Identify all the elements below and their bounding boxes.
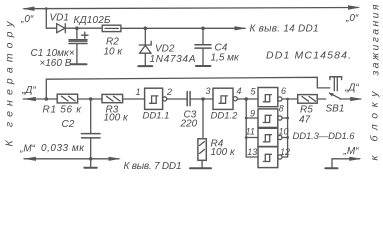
- svg-text:8: 8: [279, 104, 284, 114]
- wire input bus of DD1.3-DD1.6: [245, 99, 247, 157]
- wire gate4 out: [282, 156, 288, 158]
- svg-text:0,033 мк: 0,033 мк: [41, 143, 85, 154]
- wire right M terminal: [332, 158, 360, 160]
- svg-text:„Д“: „Д“: [344, 83, 359, 94]
- svg-text:зажигания: зажигания: [370, 4, 382, 76]
- wire gate1 out: [282, 98, 288, 100]
- svg-text:C2: C2: [62, 119, 75, 130]
- svg-text:К выв. 14 DD1: К выв. 14 DD1: [250, 24, 319, 35]
- svg-text:DD1.1: DD1.1: [143, 111, 170, 122]
- inverter DD1.3: [258, 88, 282, 107]
- node junction riser / Д rail: [45, 97, 49, 101]
- node junction diode wire / C1: [75, 26, 79, 30]
- ground under C2 junction: [90, 159, 92, 167]
- resistor R5: [298, 95, 318, 126]
- wire DD1.1 to C3: [167, 98, 187, 100]
- inverter DD1.1 (Schmitt trigger): [143, 88, 170, 121]
- svg-text:12: 12: [280, 147, 290, 157]
- capacitor C1 (electrolytic): [31, 28, 89, 69]
- wire to C4: [145, 27, 203, 29]
- node left "Д" arrow: [23, 97, 36, 101]
- svg-text:5: 5: [251, 87, 257, 97]
- capacitor C4: [195, 28, 240, 65]
- node junction C3 / R4 / DD1.2: [201, 97, 205, 101]
- svg-text:DD1.2: DD1.2: [211, 111, 239, 122]
- node top-left arrow terminal: [22, 7, 35, 11]
- wire to right Д arrow: [340, 98, 361, 100]
- svg-text:9: 9: [250, 109, 255, 119]
- wire gate3 out: [282, 137, 288, 139]
- inverter DD1.2 (Schmitt trigger): [211, 88, 239, 121]
- resistor R2: [102, 25, 145, 57]
- svg-text:КД102Б: КД102Б: [74, 15, 111, 26]
- node left "M" arrow: [23, 157, 36, 161]
- wire to pin 14 arrow: [203, 27, 245, 29]
- svg-text:VD2: VD2: [155, 44, 175, 55]
- node junction C2: [89, 97, 93, 101]
- zener diode VD2: [139, 28, 196, 65]
- ground under C1: [71, 63, 87, 65]
- node junction wire / C4: [201, 27, 205, 31]
- wire R3 to DD1.1: [123, 98, 145, 100]
- node top-right arrow terminal: [348, 5, 361, 9]
- wire riser to long bypass wire: [45, 79, 47, 99]
- svg-text:6: 6: [281, 86, 286, 96]
- svg-text:47: 47: [299, 115, 311, 126]
- svg-text:3: 3: [206, 86, 211, 96]
- wire R1 to R3: [78, 98, 102, 100]
- node arrow "К выв. 14 DD1": [235, 26, 248, 30]
- svg-text:„Д“: „Д“: [21, 85, 36, 96]
- svg-text:„0“: „0“: [345, 13, 359, 24]
- svg-text:100 к: 100 к: [211, 147, 236, 158]
- wire stub input gate2: [246, 117, 258, 119]
- resistor R4: [198, 99, 236, 167]
- svg-text:100 к: 100 к: [104, 113, 129, 124]
- wire R5 to switch contact: [317, 98, 326, 100]
- switch SB1: [326, 77, 345, 115]
- svg-text:SB1: SB1: [326, 104, 345, 115]
- wire long bypass to SB1: [46, 77, 330, 88]
- svg-text:R1 56 к: R1 56 к: [43, 105, 83, 116]
- svg-text:2: 2: [166, 87, 172, 97]
- svg-text:DD1.3—DD1.6: DD1.3—DD1.6: [293, 131, 356, 142]
- svg-text:VD1: VD1: [50, 13, 69, 24]
- svg-text:10 к: 10 к: [104, 47, 124, 58]
- ground right M: [331, 159, 333, 168]
- svg-text:1N4734A: 1N4734A: [150, 54, 196, 65]
- node junction input bus: [244, 97, 248, 101]
- wire stub input gate4: [246, 156, 258, 158]
- wire DD1.2 out to gate bank: [237, 98, 258, 100]
- wire stub input gate3: [246, 137, 258, 139]
- svg-text:1,5 мк: 1,5 мк: [211, 53, 241, 64]
- svg-text:13: 13: [247, 147, 257, 157]
- ground under R4: [190, 167, 211, 169]
- svg-text:DD1 МС14584.: DD1 МС14584.: [266, 50, 351, 62]
- node arrow "К выв. 7 DD1": [109, 157, 122, 161]
- wire bus to R5: [288, 98, 298, 100]
- wire top rail "0": [24, 8, 358, 9]
- svg-text:×160 В: ×160 В: [39, 58, 71, 69]
- diode VD1: [50, 13, 111, 33]
- resistor R1: [43, 94, 83, 115]
- wire gate2 out: [282, 117, 288, 119]
- node junction R2 wire / VD2: [144, 27, 148, 31]
- inverter DD1.6: [258, 147, 282, 168]
- inverter DD1.5: [258, 128, 282, 146]
- svg-text:4: 4: [237, 86, 242, 96]
- ground under C4: [196, 65, 211, 67]
- capacitor C3: [180, 92, 214, 130]
- wire riser from top rail to VD1 branch: [46, 9, 56, 29]
- wire left Д rail: [23, 98, 57, 100]
- capacitor C2: [62, 99, 101, 159]
- svg-text:к блоку: к блоку: [369, 91, 381, 161]
- resistor R3: [102, 94, 129, 123]
- wire bottom M rail: [24, 158, 119, 160]
- svg-text:К выв. 7 DD1: К выв. 7 DD1: [124, 161, 182, 172]
- svg-text:„0“: „0“: [20, 14, 34, 25]
- inverter DD1.4: [258, 109, 282, 128]
- svg-text:„М“: „М“: [343, 146, 360, 157]
- ground under VD2: [138, 65, 152, 67]
- node right "Д" arrow: [350, 97, 363, 101]
- svg-text:11: 11: [246, 127, 255, 137]
- wire output bus of DD1.3-DD1.6: [287, 99, 289, 157]
- node right "M" arrow: [349, 157, 362, 161]
- svg-text:220: 220: [180, 119, 198, 130]
- node junction C2 / M rail: [89, 157, 93, 161]
- svg-text:„М“: „М“: [19, 144, 36, 155]
- svg-text:1: 1: [136, 87, 141, 97]
- svg-text:К генератору: К генератору: [4, 21, 16, 147]
